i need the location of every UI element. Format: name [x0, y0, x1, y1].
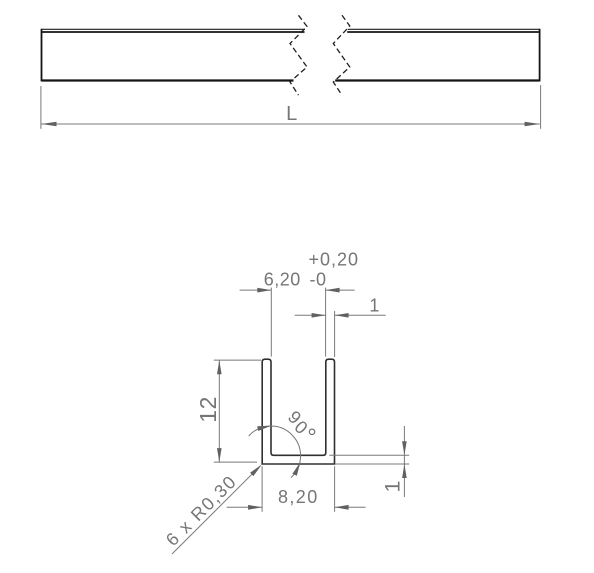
bar side view: bottom edge left part	[42, 79, 294, 81]
dimension 1 (top wall): right dimension line segment	[335, 314, 386, 316]
dimension 8,20: value text	[278, 487, 319, 507]
dimension 6,20: right dimension line segment	[326, 289, 355, 291]
dimension 1 (bottom wall): lower extension line	[335, 463, 409, 465]
radius callout 6 x R0,30: arrowhead	[250, 464, 262, 476]
dimension L: dimension line	[41, 123, 540, 125]
svg-text:+0,20: +0,20	[309, 250, 360, 270]
dimension 6,20: value text	[264, 269, 301, 289]
dimension 8,20: left extension line	[261, 466, 263, 512]
dimension 12: top extension line	[214, 359, 261, 361]
svg-text:L: L	[286, 103, 297, 125]
dimension 6,20: left arrowhead pointing right	[257, 288, 271, 293]
dimension 1 (bottom wall): dimension line	[403, 426, 405, 497]
dimension L: left arrowhead	[41, 122, 56, 127]
dimension L: left extension line	[40, 86, 42, 129]
dimension 6,20: tolerance +0,20	[309, 250, 360, 270]
dimension L: right extension line	[540, 85, 542, 129]
dimension 8,20: right dimension line segment	[335, 506, 366, 508]
dimension 1 (top wall): left dimension line segment	[295, 314, 326, 316]
dimension 6,20: right extension line	[325, 288, 327, 357]
svg-text:1: 1	[381, 481, 405, 493]
bar side view: top edge thick line right part	[347, 31, 539, 33]
dimension 6,20: right arrowhead pointing left	[326, 288, 340, 293]
dimension L: right arrowhead	[525, 122, 540, 127]
dimension 8,20: left dimension line segment	[227, 506, 262, 508]
svg-text:-0: -0	[310, 269, 327, 289]
dimension 6,20: left dimension line segment	[240, 289, 272, 291]
svg-text:8,20: 8,20	[278, 487, 319, 507]
U-profile cross-section outline	[262, 359, 334, 464]
dimension 12: dimension line	[218, 360, 220, 462]
dimension 1 (top wall): arrowhead pointing left	[335, 313, 349, 318]
dimension 6,20: left extension line	[270, 288, 272, 357]
angular dimension 90: top arrowhead pointing right	[257, 426, 271, 431]
dimension 8,20: left arrowhead pointing right	[248, 505, 262, 510]
dimension L: label L	[286, 103, 297, 125]
dimension 12: bottom arrowhead	[217, 448, 222, 462]
dimension 1 (bottom wall): lower arrowhead pointing up	[402, 464, 407, 478]
dimension 8,20: right extension line	[334, 466, 336, 512]
dimension 1 (top wall): extension line outer	[334, 311, 336, 357]
dimension 12: bottom extension line	[214, 461, 257, 463]
dimension 1 (bottom wall): upper arrowhead pointing down	[402, 441, 407, 455]
dimension 12: value text rotated	[195, 396, 221, 423]
radius callout 6 x R0,30: text rotated	[162, 471, 241, 550]
svg-text:1: 1	[369, 296, 379, 316]
dimension 8,20: right arrowhead pointing left	[335, 505, 349, 510]
bar side view: top edge thin line right part	[348, 28, 540, 30]
radius callout 6 x R0,30: leader line	[172, 466, 260, 554]
bar side view: left end edge	[41, 29, 43, 82]
angular dimension 90: arc	[249, 426, 301, 478]
break line zigzag right	[333, 15, 350, 95]
break line zigzag left	[290, 15, 307, 95]
dimension 12: top arrowhead	[217, 360, 222, 374]
dimension 1 (bottom wall): value text rotated	[381, 481, 405, 493]
bar side view: top edge thin line left part	[42, 28, 306, 30]
bar side view: bottom edge right part	[335, 79, 539, 81]
bar side view: top edge thick line left part	[42, 31, 305, 33]
svg-text:6,20: 6,20	[264, 269, 301, 289]
angular dimension 90: bottom arrowhead pointing up	[292, 462, 300, 476]
angular dimension 90: value text rotated	[284, 407, 321, 449]
svg-text:12: 12	[195, 396, 221, 423]
dimension 1 (top wall): value text	[369, 296, 379, 316]
dimension 6,20: tolerance -0	[310, 269, 327, 289]
dimension 1 (bottom wall): upper extension line	[329, 454, 409, 456]
dimension 1 (top wall): arrowhead pointing right	[312, 313, 326, 318]
bar side view: right end edge	[539, 29, 541, 82]
